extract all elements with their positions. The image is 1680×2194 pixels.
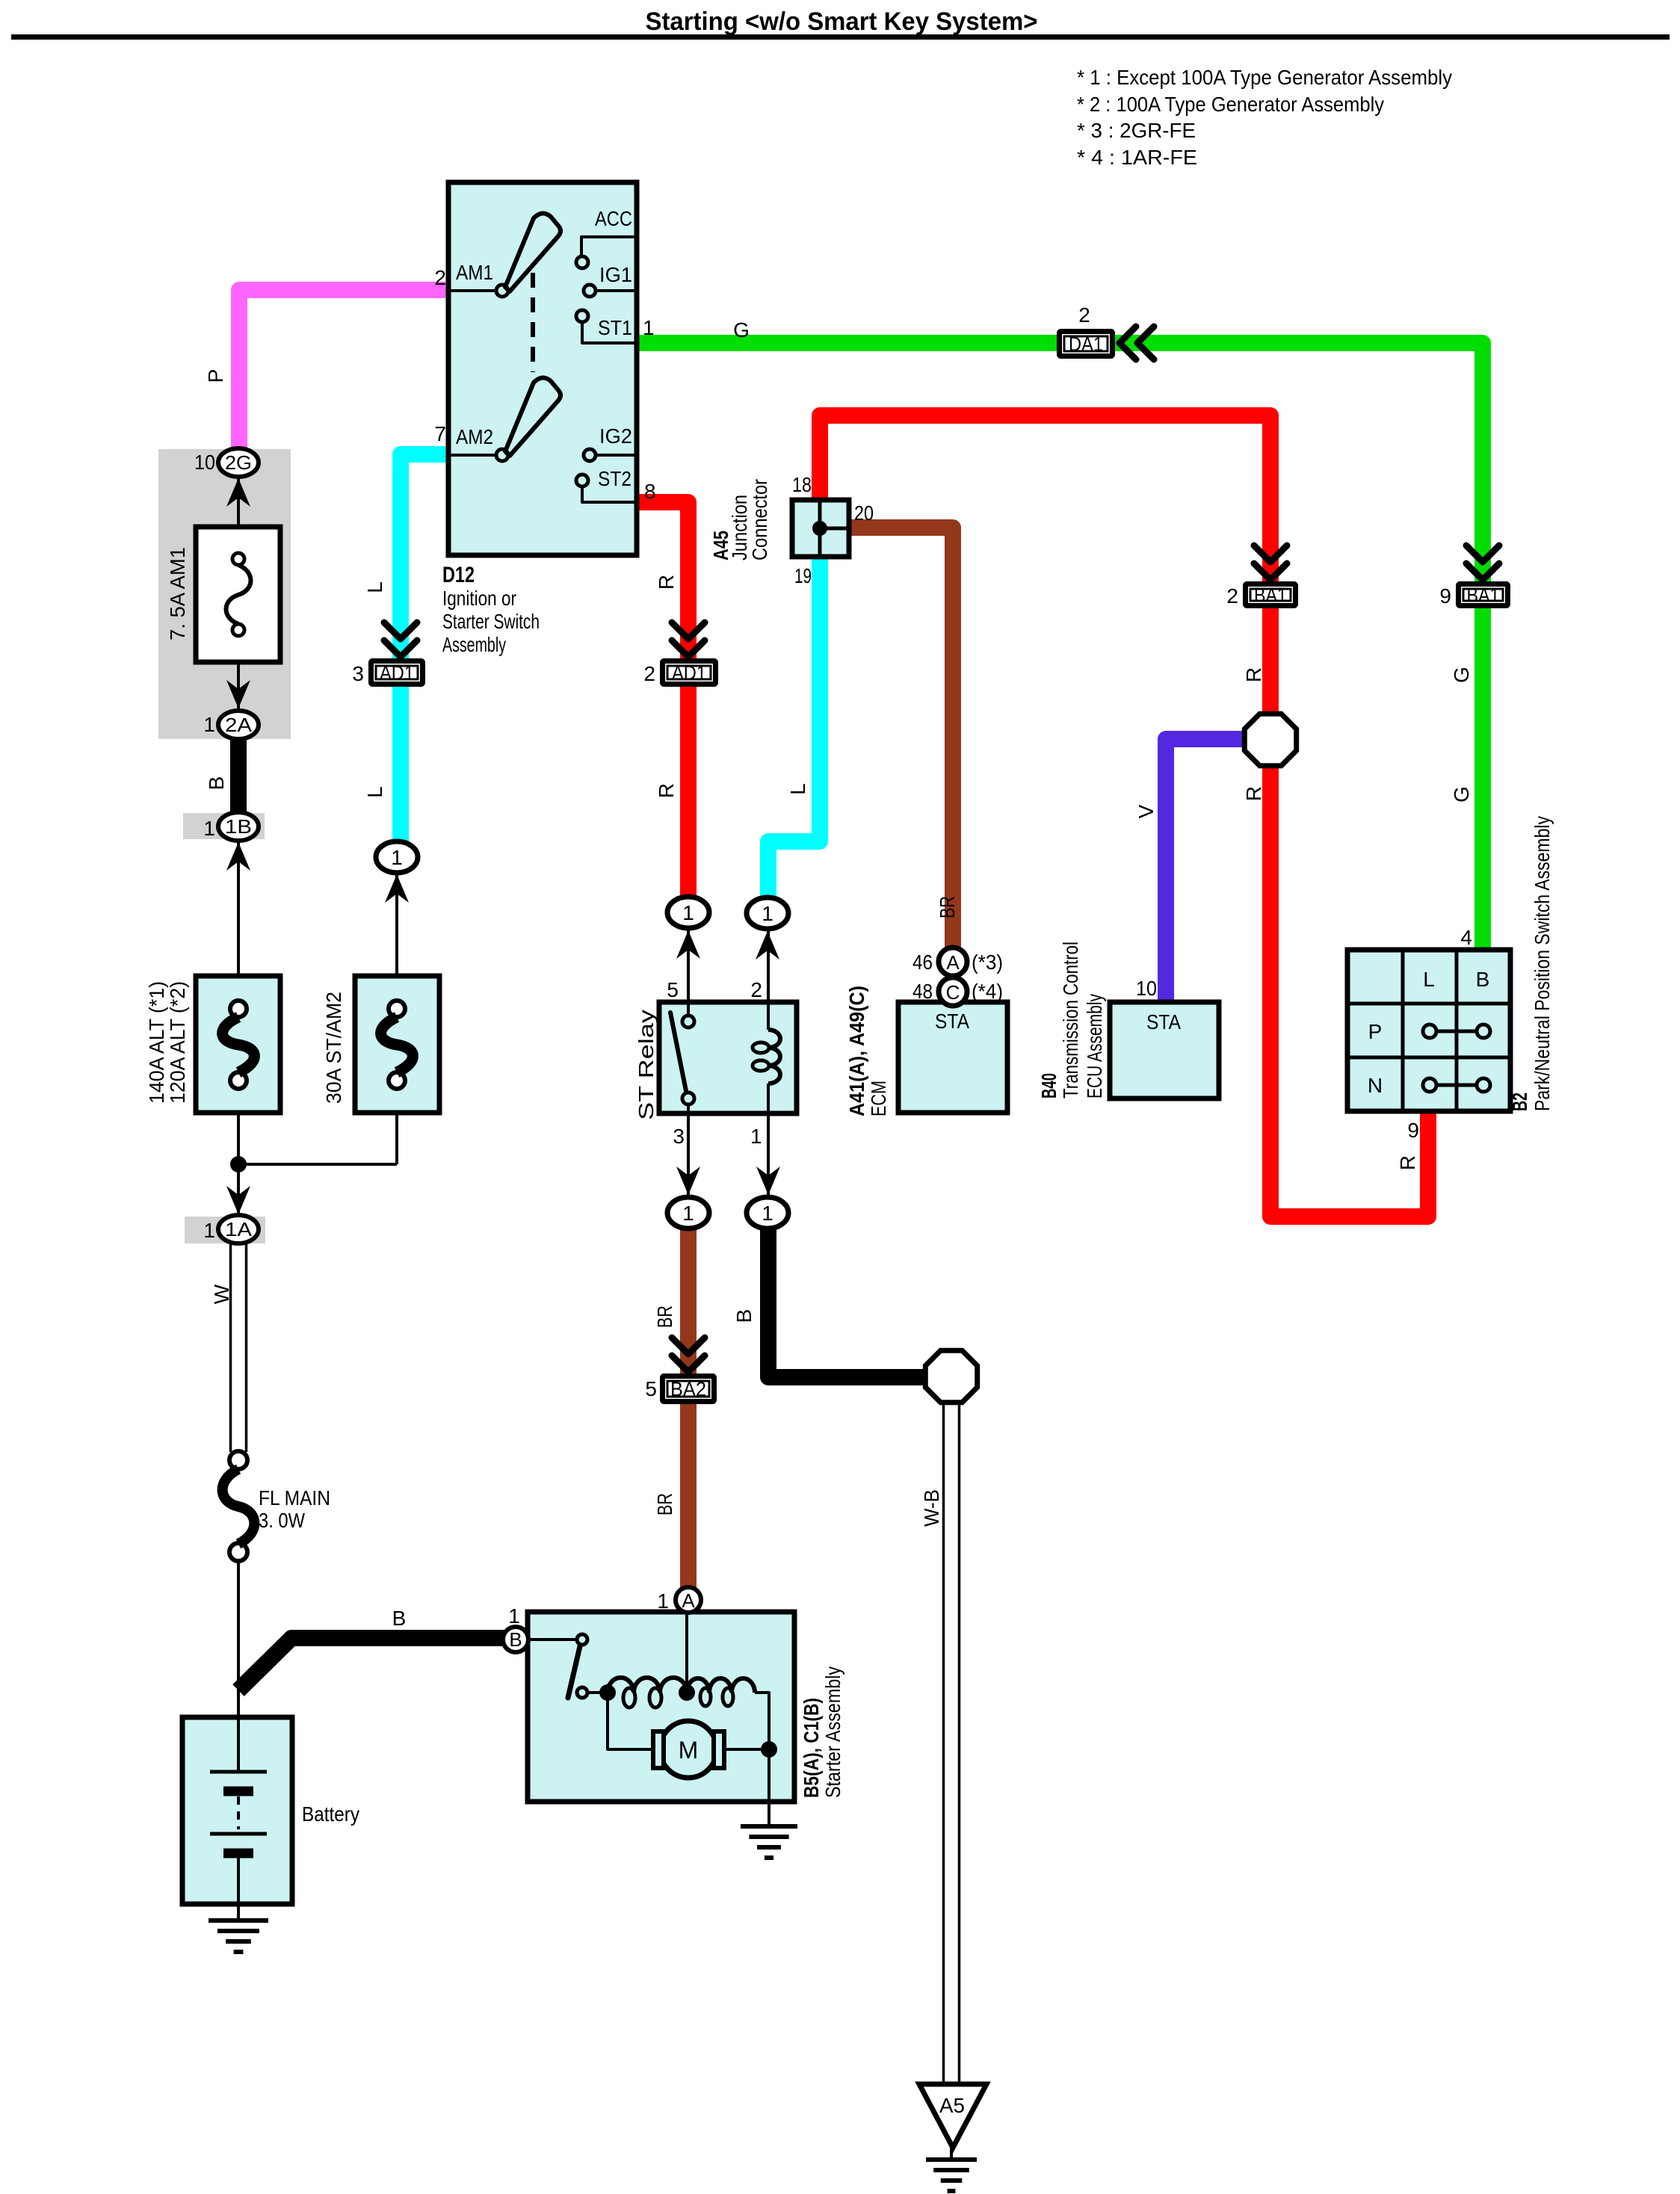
park/neutral N contacts (1423, 1078, 1490, 1092)
svg-text:3: 3 (673, 1125, 685, 1148)
label A45 (rotated) (709, 531, 732, 560)
wire W (white) 1A to FL MAIN (231, 1243, 247, 1452)
label P (pink wire) (204, 369, 227, 383)
svg-text:* 2 : 100A Type Generator Asse: * 2 : 100A Type Generator Assembly (1077, 93, 1384, 116)
label Park/Neutral Position Switch Assembly (rotated) (1531, 816, 1554, 1111)
starter junction dot center (679, 1684, 695, 1701)
ST relay coil (753, 1004, 780, 1112)
pin 2 label at BA1 (1226, 584, 1238, 608)
svg-text:1: 1 (391, 846, 403, 869)
svg-text:G: G (733, 318, 750, 342)
svg-text:B: B (1476, 968, 1490, 991)
arrow chevrons into BA2 (672, 1338, 705, 1372)
label ECU Assembly (rotated) (1083, 994, 1106, 1098)
wire W-B (white-black) octagon joint to ground A5 (944, 1403, 960, 2085)
svg-text:STA: STA (1146, 1010, 1181, 1033)
D12 contact ST1 bracket (576, 310, 637, 343)
svg-text:1: 1 (203, 1219, 215, 1242)
label B5(A), C1(B) (rotated) (800, 1698, 823, 1798)
note *4 (1077, 146, 1197, 169)
svg-text:R: R (655, 783, 678, 798)
svg-text:STA: STA (935, 1010, 969, 1033)
svg-text:AD1: AD1 (380, 662, 414, 685)
svg-text:R: R (655, 575, 678, 590)
label BR (brown wire to ECM) (936, 896, 959, 918)
svg-text:B: B (392, 1607, 407, 1630)
battery box (182, 1717, 292, 1904)
pin 1 label at 1A (203, 1219, 215, 1242)
wire P (pink) AM1 to 2G (239, 290, 448, 448)
D12 label AM2 (456, 425, 493, 448)
ground below starter (741, 1826, 797, 1858)
svg-text:7. 5A AM1: 7. 5A AM1 (166, 547, 189, 640)
starter wire coil right down (755, 1693, 769, 1802)
octagon joint (red/violet) (1244, 714, 1296, 765)
connector 1B oval (218, 812, 259, 841)
pin 10 label at B40 (1136, 977, 1157, 1000)
park/neutral label N (1368, 1074, 1383, 1097)
park/neutral P contacts (1423, 1025, 1490, 1038)
svg-text:B: B (205, 776, 228, 791)
ground below battery (209, 1920, 268, 1952)
D12 contact IG1 (584, 285, 637, 297)
label B40 (rotated) (1037, 1073, 1060, 1098)
label A41(A), A49(C) (rotated) (845, 986, 868, 1116)
label B (black wire below relay) (732, 1309, 756, 1323)
label STA in ECM (935, 1010, 969, 1033)
D12 contact ST2 bracket (576, 475, 637, 502)
splice oval 1 (cyan left) (376, 841, 418, 873)
D12 label IG1 (599, 263, 632, 286)
starter motor M (653, 1721, 724, 1778)
wire splice to ST/AM2 fuse to junction (395, 873, 398, 1164)
label V (violet wire) (1134, 804, 1158, 818)
pin 3 label at AD1 (352, 662, 364, 685)
svg-text:3. 0W: 3. 0W (259, 1509, 305, 1532)
svg-text:Assembly: Assembly (442, 633, 506, 656)
svg-text:R: R (1396, 1155, 1419, 1170)
label L (cyan wire lower) (363, 786, 386, 798)
label G (green wire horizontal) (733, 318, 750, 342)
svg-text:Starter Assembly: Starter Assembly (821, 1666, 844, 1798)
wire FL MAIN to battery (237, 1560, 240, 1719)
svg-text:B5(A), C1(B): B5(A), C1(B) (800, 1698, 823, 1798)
arrow up into splice (red) (676, 930, 700, 959)
starter hold-in coil (608, 1678, 687, 1708)
pin 9 label at BA1 (1439, 584, 1451, 608)
label Connector (rotated) (748, 479, 771, 560)
pin 1 label at relay (750, 1125, 762, 1148)
svg-text:(*3): (*3) (972, 951, 1003, 974)
D12 dashed link between key arms (531, 273, 535, 372)
fuse 7.5A AM1 element (226, 553, 251, 636)
ST relay box (659, 1002, 797, 1113)
wire junction to 1A (237, 1164, 240, 1217)
wire B (black) battery to starter B (238, 1638, 505, 1690)
park/neutral grid (1347, 950, 1510, 1111)
svg-text:1B: 1B (225, 815, 252, 838)
arrow up into splice (cyan right) (756, 931, 779, 960)
park/neutral label L (1423, 968, 1435, 991)
label R (red wire upper) (655, 575, 678, 590)
fuse ALT element (223, 1001, 255, 1089)
label B (battery to starter wire) (392, 1607, 407, 1630)
svg-text:1: 1 (508, 1604, 520, 1628)
svg-text:2A: 2A (225, 714, 253, 736)
svg-text:20: 20 (854, 501, 874, 525)
ground below A5 (926, 2160, 977, 2191)
wire cyan splice to relay pin2 (767, 930, 770, 1003)
D12 label ST1 (598, 316, 632, 339)
label Starter Switch (442, 610, 540, 633)
label Battery (302, 1802, 359, 1826)
note *2 (1077, 93, 1384, 116)
title: Starting <w/o Smart Key System> (646, 7, 1038, 36)
svg-text:30A ST/AM2: 30A ST/AM2 (322, 992, 345, 1104)
svg-text:2G: 2G (225, 451, 252, 474)
pin 1 label at starter A (657, 1589, 669, 1613)
svg-text:L: L (363, 581, 386, 593)
label (*3) (972, 951, 1003, 974)
svg-text:W: W (210, 1284, 233, 1304)
D12 pin 8 label (644, 480, 656, 503)
arrow up into splice (cyan left) (385, 874, 409, 903)
svg-text:AM2: AM2 (456, 425, 493, 448)
svg-text:BA1: BA1 (1254, 584, 1287, 607)
park/neutral label B (1476, 968, 1490, 991)
svg-text:V: V (1134, 804, 1158, 818)
wire starter coil junction to ground (768, 1802, 770, 1826)
connector 9 BA1 (1459, 584, 1508, 607)
pin 2 label at AD1 (643, 662, 655, 685)
pin 4 label at park/neutral (1460, 926, 1472, 949)
label BR (brown wire below relay) (653, 1305, 676, 1328)
label Assembly (442, 633, 506, 656)
svg-text:* 1 : Except 100A Type Generat: * 1 : Except 100A Type Generator Assembl… (1077, 66, 1452, 89)
svg-text:8: 8 (644, 480, 656, 503)
svg-text:A41(A), A49(C): A41(A), A49(C) (845, 986, 868, 1116)
pin 2 label at DA1 (1078, 303, 1090, 327)
ST relay switch (670, 1004, 694, 1112)
label 7. 5A AM1 (rotated) (166, 547, 189, 640)
pin 48 label (912, 980, 933, 1003)
wire V (violet) octagon joint to B40 STA (1166, 739, 1243, 1003)
octagon joint (starter ground wire) (925, 1350, 977, 1402)
transmission control ECU B40 box (1110, 1002, 1219, 1098)
splice oval 1 (red) (667, 897, 709, 928)
pin 46 label (912, 951, 933, 974)
label FL MAIN (259, 1486, 330, 1509)
D12 key arm AM1 wedge (505, 213, 560, 291)
label Starter Assembly (rotated) (821, 1666, 844, 1798)
svg-text:1: 1 (203, 713, 215, 736)
svg-text:P: P (1368, 1020, 1383, 1043)
fuse 140A/120A ALT box (196, 976, 280, 1113)
svg-text:AD1: AD1 (672, 662, 706, 685)
connector 5 BA2 (663, 1376, 714, 1402)
ground triangle A5 (919, 2084, 986, 2148)
svg-text:* 4 : 1AR-FE: * 4 : 1AR-FE (1077, 146, 1197, 169)
junction connector A45 internals (812, 502, 847, 554)
arrow up into 2G (226, 478, 250, 507)
svg-text:G: G (1450, 786, 1473, 803)
pin 5 label at BA2 (645, 1377, 657, 1400)
svg-text:B: B (732, 1309, 756, 1323)
svg-text:2: 2 (434, 266, 446, 289)
starter terminal A circle (676, 1587, 701, 1613)
svg-text:FL MAIN: FL MAIN (259, 1486, 330, 1509)
wire B (black) 2A to 1B (230, 738, 247, 814)
svg-text:5: 5 (645, 1377, 657, 1400)
svg-text:IG1: IG1 (599, 263, 632, 286)
svg-text:A: A (682, 1589, 695, 1612)
arrow down into splice (brown) (676, 1166, 700, 1195)
note *1 (1077, 66, 1452, 89)
svg-text:1: 1 (682, 901, 694, 924)
label W (white wire) (210, 1284, 233, 1304)
fuse ST/AM2 element (381, 1001, 413, 1089)
svg-text:1: 1 (762, 902, 773, 925)
svg-text:Battery: Battery (302, 1802, 359, 1826)
label BR (brown wire below BA2) (653, 1493, 676, 1515)
D12 label ACC (595, 207, 632, 230)
starter junction dot left (599, 1684, 616, 1701)
note *3 (1077, 119, 1196, 142)
svg-text:18: 18 (792, 473, 812, 496)
label Ignition or (442, 587, 516, 610)
park/neutral position switch box (1347, 950, 1510, 1111)
D12 key arm AM2 wedge (505, 377, 560, 456)
svg-text:M: M (679, 1737, 699, 1764)
svg-text:1: 1 (643, 316, 655, 339)
label STA in B40 (1146, 1010, 1181, 1033)
svg-text:N: N (1368, 1074, 1383, 1097)
label 140A ALT (rotated) (145, 981, 189, 1104)
label D12 (442, 563, 475, 587)
svg-text:BA2: BA2 (670, 1378, 706, 1400)
ECM connector A circle (939, 948, 967, 976)
D12 pin AM2 contact (448, 449, 508, 461)
label ECM (rotated) (867, 1081, 890, 1116)
wire L (cyan) AM2 to AD1 to splice (401, 454, 448, 842)
svg-text:120A ALT (*2): 120A ALT (*2) (166, 981, 189, 1104)
svg-text:10: 10 (194, 451, 215, 474)
D12 pin 1 label (643, 316, 655, 339)
svg-text:ST1: ST1 (598, 316, 632, 339)
label 3. 0W (259, 1509, 305, 1532)
svg-text:5: 5 (667, 978, 679, 1001)
svg-text:A5: A5 (939, 2094, 965, 2117)
label R (red below octagon) (1242, 786, 1265, 801)
svg-text:ST Relay: ST Relay (634, 1010, 658, 1120)
starter assembly box B5(A) C1(B) (528, 1612, 794, 1802)
svg-text:9: 9 (1439, 584, 1451, 608)
svg-text:1: 1 (750, 1125, 762, 1148)
pin 1 label at 1B (203, 817, 215, 840)
pin 9 label at park/neutral (1407, 1119, 1419, 1142)
fuse 30A ST/AM2 box (355, 976, 439, 1113)
svg-text:L: L (786, 783, 809, 795)
svg-text:B2: B2 (1508, 1093, 1531, 1111)
connector 2 AD1 (663, 661, 716, 685)
arrow down into 2A (226, 680, 250, 708)
svg-text:W-B: W-B (920, 1489, 943, 1527)
svg-text:2: 2 (1078, 303, 1090, 327)
svg-text:Starting <w/o Smart Key System: Starting <w/o Smart Key System> (646, 7, 1038, 36)
D12 pin 7 label (434, 422, 446, 445)
svg-text:(*4): (*4) (972, 980, 1003, 1003)
splice oval 1 (relay pin1) (747, 1197, 788, 1229)
wire red splice to relay pin5 (687, 930, 690, 1003)
label Junction (rotated) (728, 495, 751, 560)
svg-text:Connector: Connector (748, 479, 771, 560)
svg-text:L: L (1423, 968, 1435, 991)
D12 label IG2 (599, 424, 632, 448)
arrow chevrons into AD1 (2) (672, 622, 705, 657)
wire 2G to fuse to 2A (237, 477, 240, 711)
starter terminal B circle (503, 1627, 528, 1652)
D12 label ST2 (598, 467, 631, 490)
label G (green lower) (1450, 786, 1473, 803)
svg-text:2: 2 (643, 662, 655, 685)
arrow chevrons into BA1 (9) (1466, 546, 1499, 580)
junction dot below ALT fuse (230, 1156, 247, 1172)
label B (black wire 2A-1B) (205, 776, 228, 791)
svg-text:* 3 : 2GR-FE: * 3 : 2GR-FE (1077, 119, 1196, 142)
svg-text:D12: D12 (442, 563, 475, 587)
connector 2A oval (218, 711, 259, 739)
label L (cyan wire upper) (363, 581, 386, 593)
connector 2 BA1 (1246, 584, 1296, 607)
connector 1A oval (218, 1215, 259, 1243)
svg-text:Transmission Control: Transmission Control (1059, 942, 1082, 1098)
connector 2 DA1 (1060, 332, 1113, 356)
pin 2 label at relay coil (750, 978, 762, 1001)
label ST Relay (rotated) (634, 1010, 658, 1120)
starter junction dot right (761, 1741, 777, 1758)
junction connector A45 box (792, 500, 849, 557)
wire relay pin3 down (687, 1113, 690, 1197)
svg-text:R: R (1242, 786, 1265, 801)
D12 pin 2 label (434, 266, 446, 289)
svg-text:P: P (204, 369, 227, 383)
svg-text:B: B (509, 1628, 522, 1651)
svg-text:ST2: ST2 (598, 467, 631, 490)
svg-text:R: R (1242, 667, 1265, 682)
svg-text:1: 1 (657, 1589, 669, 1613)
svg-text:BR: BR (936, 896, 959, 918)
starter wire left branch to motor (608, 1693, 653, 1749)
gray panel behind 7.5A AM1 fuse (158, 449, 291, 739)
svg-text:L: L (363, 786, 386, 798)
wire 1B to ALT fuse to junction dot (237, 841, 240, 1164)
wire A5 to ground (950, 2148, 953, 2160)
ECM connector C circle (939, 977, 967, 1006)
svg-text:Park/Neutral Position Switch A: Park/Neutral Position Switch Assembly (1531, 816, 1554, 1111)
title underline (11, 34, 1670, 40)
starter wire contact to coil (587, 1691, 609, 1694)
svg-text:1: 1 (203, 817, 215, 840)
wire relay pin1 down (767, 1113, 770, 1197)
svg-text:IG2: IG2 (599, 424, 632, 448)
label 30A ST/AM2 (rotated) (322, 992, 345, 1104)
svg-text:ECM: ECM (867, 1081, 890, 1116)
svg-text:C: C (946, 981, 960, 1004)
svg-text:ECU Assembly: ECU Assembly (1083, 994, 1106, 1098)
pin 20 label at A45 (854, 501, 874, 525)
connector 2G oval (218, 448, 259, 477)
arrow chevrons into AD1 (3) (384, 622, 417, 657)
svg-text:ACC: ACC (595, 207, 632, 230)
svg-text:1: 1 (682, 1202, 694, 1225)
fuse 7.5A AM1 box (196, 527, 280, 662)
svg-text:Ignition or: Ignition or (442, 587, 516, 610)
svg-text:DA1: DA1 (1069, 333, 1103, 356)
svg-text:Starter Switch: Starter Switch (442, 610, 540, 633)
wire BR (brown) relay pin3 splice to BA2 to starter A (680, 1229, 697, 1588)
label W-B (rotated) (920, 1489, 943, 1527)
ECM box A41(A) A49(C) (898, 1002, 1007, 1113)
arrow down into 1A (226, 1186, 250, 1214)
arrow chevrons at DA1 (left) (1120, 327, 1154, 359)
pin 3 label at relay (673, 1125, 685, 1148)
starter pull-in coil (687, 1678, 755, 1706)
starter wire A to coil junction (685, 1612, 688, 1693)
svg-text:3: 3 (352, 662, 364, 685)
pin 19 label at A45 (794, 564, 812, 587)
svg-text:BA1: BA1 (1467, 584, 1500, 607)
label R (red above octagon) (1242, 667, 1265, 682)
svg-text:140A ALT (*1): 140A ALT (*1) (145, 981, 168, 1104)
connector 3 AD1 (371, 661, 423, 685)
label R (red wire lower) (655, 783, 678, 798)
pin 1 label at 2A (203, 713, 215, 736)
svg-text:A: A (946, 951, 960, 974)
splice oval 1 (cyan right) (747, 897, 788, 929)
wire R (red) junction A45 to BA1 to octagon joint to park/neutral pin9 (820, 415, 1428, 1217)
svg-text:G: G (1450, 667, 1473, 683)
label (*4) (972, 980, 1003, 1003)
svg-text:19: 19 (794, 564, 812, 587)
label G (green upper) (1450, 667, 1473, 683)
pin 18 label at A45 (792, 473, 812, 496)
svg-text:BR: BR (653, 1305, 676, 1328)
D12 label AM1 (456, 261, 493, 284)
svg-text:10: 10 (1136, 977, 1157, 1000)
arrow chevrons into BA1 (2) (1254, 546, 1287, 580)
wire G (green) ST1 to DA1 to BA1 to park/neutral pin4 (637, 343, 1483, 951)
wire R (red) ST2 to AD1 to splice (637, 502, 688, 897)
gray tag behind connector 1B (183, 813, 265, 839)
pin 1 label at starter B (508, 1604, 520, 1628)
label L (cyan wire right) (786, 783, 809, 795)
fusible link FL MAIN (223, 1451, 255, 1561)
svg-text:48: 48 (912, 980, 933, 1003)
svg-text:B40: B40 (1037, 1073, 1060, 1098)
svg-text:2: 2 (1226, 584, 1238, 608)
svg-text:1: 1 (762, 1202, 773, 1225)
D12 pin AM1 contact (448, 285, 508, 297)
svg-text:1A: 1A (225, 1218, 253, 1240)
arrow up into 1B (226, 842, 250, 871)
splice oval 1 (relay pin3) (667, 1197, 709, 1229)
pin 5 label at relay (667, 978, 679, 1001)
svg-text:4: 4 (1460, 926, 1472, 949)
label Transmission Control (rotated) (1059, 942, 1082, 1098)
pin 10 label at 2G (194, 451, 215, 474)
svg-text:9: 9 (1407, 1119, 1419, 1142)
wire junction horizontal below fuses (238, 1163, 397, 1166)
